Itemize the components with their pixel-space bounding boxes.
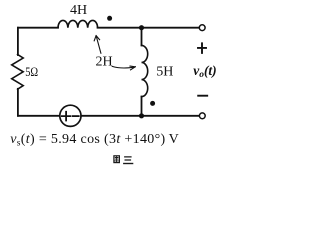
node junction top (to 5H) xyxy=(139,25,144,30)
inductor L2 5H xyxy=(142,45,148,96)
voltage source VS circle xyxy=(60,105,81,126)
resistor R1 5ohm xyxy=(12,55,24,90)
node junction bottom (to 5H) xyxy=(139,113,144,118)
coupling dot (4H, top) xyxy=(107,16,112,21)
caption: Chinese character "tu" (figure) xyxy=(114,156,120,163)
wire 5H branch lower xyxy=(141,97,143,116)
label - (output polarity) xyxy=(198,95,207,97)
svg-text:4H: 4H xyxy=(70,3,87,18)
terminal top-right (open) xyxy=(199,25,205,31)
wire left rail lower xyxy=(17,89,19,116)
wire bottom-right segment xyxy=(81,115,199,117)
coupling dot (5H, bottom) xyxy=(150,101,155,106)
wire bottom-left segment xyxy=(18,115,59,117)
voltage source plus sign xyxy=(62,112,71,121)
label + (output polarity) xyxy=(198,43,206,53)
svg-text:vs(t) = 5.94 cos (3t +140°) V: vs(t) = 5.94 cos (3t +140°) V xyxy=(10,132,179,149)
wire left rail upper xyxy=(17,28,19,55)
voltage source minus sign xyxy=(73,115,79,117)
wire top-right segment xyxy=(98,27,200,29)
svg-text:5Ω: 5Ω xyxy=(25,64,38,79)
svg-text:5H: 5H xyxy=(156,65,173,80)
svg-text:vo(t): vo(t) xyxy=(193,63,217,80)
arrow from 2H to 4H (up) xyxy=(94,36,101,54)
inductor L1 4H xyxy=(58,20,98,27)
wire 5H branch upper xyxy=(141,28,143,46)
caption: Chinese character "san" (three) xyxy=(124,157,133,164)
arrow from 2H to 5H (curved right) xyxy=(112,66,135,70)
svg-text:2H: 2H xyxy=(95,55,112,70)
terminal bottom-right (open) xyxy=(199,113,205,119)
wire top-left segment xyxy=(18,27,58,29)
